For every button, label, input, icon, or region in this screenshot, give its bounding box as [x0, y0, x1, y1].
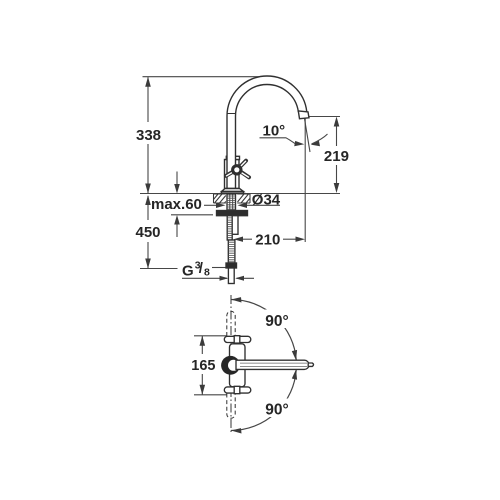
svg-text:max.60: max.60	[151, 196, 202, 213]
svg-text:338: 338	[136, 127, 161, 144]
svg-text:219: 219	[324, 148, 349, 165]
svg-text:450: 450	[136, 224, 161, 241]
svg-text:Ø34: Ø34	[252, 191, 281, 208]
svg-text:10°: 10°	[263, 123, 286, 140]
svg-text:G: G	[182, 262, 194, 279]
svg-text:90°: 90°	[265, 402, 288, 419]
svg-text:210: 210	[255, 231, 280, 248]
svg-text:90°: 90°	[265, 313, 288, 330]
svg-text:165: 165	[191, 358, 215, 374]
svg-text:8: 8	[204, 266, 210, 278]
